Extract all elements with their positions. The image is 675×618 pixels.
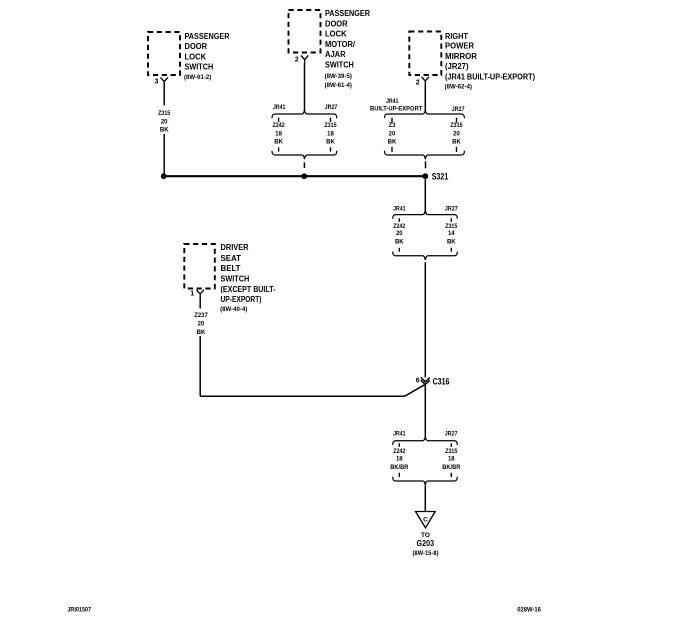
svg-text:PASSENGER: PASSENGER	[185, 32, 230, 41]
branch C labels JR41 / JR27	[393, 206, 458, 212]
label: passenger door lock switch	[184, 32, 230, 81]
svg-text:20: 20	[453, 131, 460, 137]
branch A labels JR41 / JR27	[273, 105, 338, 111]
svg-text:JR27: JR27	[325, 105, 338, 111]
wire from brace D to ground symbol	[424, 486, 426, 512]
svg-text:BELT: BELT	[221, 264, 241, 273]
svg-text:18: 18	[327, 131, 334, 137]
svg-text:(8W-15-8): (8W-15-8)	[413, 550, 439, 557]
brace D top	[393, 437, 458, 445]
brace C column dashes lower	[399, 248, 451, 252]
wire label Z315 20 BK	[158, 111, 171, 133]
svg-text:JR27: JR27	[445, 206, 458, 212]
brace B bottom	[385, 151, 465, 159]
svg-text:6: 6	[416, 377, 420, 384]
wire from motor/ajar switch to splice brace	[304, 63, 306, 110]
svg-text:BK: BK	[447, 240, 456, 246]
pin 6 (C316)	[416, 377, 420, 384]
svg-text:BUILT-UP-EXPORT: BUILT-UP-EXPORT	[370, 107, 423, 113]
svg-text:AJAR: AJAR	[325, 50, 346, 59]
footer sheet number right	[517, 608, 541, 614]
svg-text:Z242: Z242	[273, 123, 286, 129]
svg-text:SWITCH: SWITCH	[221, 275, 250, 284]
svg-text:18: 18	[396, 456, 403, 462]
svg-text:14: 14	[448, 231, 455, 237]
svg-text:(8W-61-2): (8W-61-2)	[184, 74, 211, 81]
brace B top (under right power mirror)	[385, 110, 465, 118]
svg-text:JR27: JR27	[452, 107, 465, 113]
svg-text:SWITCH: SWITCH	[325, 60, 354, 69]
brace D column dashes lower	[399, 473, 451, 477]
wire Z315 upper segment	[163, 85, 165, 105]
svg-text:(8W-61-4): (8W-61-4)	[325, 82, 352, 89]
brace D bottom	[393, 477, 458, 485]
svg-text:20: 20	[198, 322, 205, 328]
svg-text:LOCK: LOCK	[185, 52, 207, 61]
svg-text:BK: BK	[388, 140, 397, 146]
wire Z237 upper segment	[199, 297, 201, 309]
svg-text:18: 18	[448, 456, 455, 462]
brace C bottom	[393, 252, 458, 260]
svg-text:BK: BK	[452, 140, 461, 146]
svg-text:(JR27): (JR27)	[445, 62, 469, 71]
svg-text:JR41: JR41	[393, 206, 406, 212]
ground destination label TO G203	[413, 532, 439, 557]
brace A bottom	[272, 151, 337, 159]
svg-text:2: 2	[295, 57, 299, 64]
wire Z315 lower segment	[163, 134, 165, 176]
footer sheet number left	[67, 607, 91, 613]
svg-text:(8W-39-5): (8W-39-5)	[325, 73, 352, 80]
svg-text:(EXCEPT BUILT-: (EXCEPT BUILT-	[221, 285, 276, 294]
terminal Y (passenger door lock motor/ajar switch)	[301, 55, 308, 62]
connector C316 label	[433, 376, 450, 386]
terminal Y (right power mirror)	[422, 77, 429, 84]
svg-text:BK: BK	[274, 140, 283, 146]
splice S321 dot	[422, 173, 428, 179]
svg-text:JR41: JR41	[386, 99, 399, 105]
svg-text:UP-EXPORT): UP-EXPORT)	[221, 295, 262, 304]
branch B labels JR41 BUILT-UP-EXPORT / JR27	[370, 99, 465, 113]
wire Z237 vertical lower segment	[199, 336, 201, 396]
brace A column dashes upper	[279, 118, 331, 122]
svg-text:Z315: Z315	[324, 123, 337, 129]
svg-text:Z315: Z315	[445, 449, 458, 455]
svg-text:Z315: Z315	[450, 123, 463, 129]
connector box: passenger door lock switch	[148, 32, 180, 75]
branch A right column Z315 18 BK	[324, 123, 337, 146]
svg-text:SWITCH: SWITCH	[185, 63, 214, 72]
brace C top	[393, 210, 458, 218]
svg-text:G203: G203	[417, 539, 435, 548]
junction dot left	[161, 173, 167, 179]
connector box: right power mirror	[409, 32, 441, 76]
svg-text:BK/BR: BK/BR	[442, 465, 461, 471]
terminal Y (driver seat belt switch)	[197, 290, 204, 297]
svg-text:DOOR: DOOR	[325, 20, 348, 29]
wire from C316 down to brace D	[424, 385, 426, 437]
brace B column dashes lower	[392, 147, 457, 152]
svg-text:PASSENGER: PASSENGER	[325, 9, 370, 18]
wire dash below brace B	[425, 161, 427, 168]
label: right power mirror	[445, 32, 536, 91]
svg-text:DRIVER: DRIVER	[221, 243, 249, 252]
branch D right column Z315 18 BK/BR	[442, 449, 461, 471]
svg-text:3: 3	[154, 79, 158, 86]
pin 3 (passenger door lock switch)	[154, 79, 158, 86]
pin 1 (driver seat belt switch)	[190, 291, 194, 298]
svg-text:RIGHT: RIGHT	[445, 32, 468, 41]
svg-text:LOCK: LOCK	[325, 30, 347, 39]
wire Z237 horizontal segment	[200, 395, 404, 397]
wire from S321 down to brace C	[424, 179, 426, 211]
svg-text:DOOR: DOOR	[185, 42, 208, 51]
pin 2 (right power mirror)	[416, 79, 420, 86]
svg-text:20: 20	[396, 231, 403, 237]
wire Z237 diagonal segment to C316	[405, 384, 426, 396]
wire from right power mirror to splice brace	[424, 84, 426, 110]
svg-text:C316: C316	[433, 376, 450, 386]
svg-text:Z315: Z315	[445, 224, 458, 230]
brace B column dashes upper	[392, 118, 457, 123]
svg-text:BK: BK	[197, 330, 206, 336]
svg-text:Z237: Z237	[194, 313, 208, 319]
svg-text:20: 20	[389, 131, 396, 137]
wire dash below brace A	[303, 162, 305, 168]
branch C left column Z242 20 BK	[393, 224, 406, 246]
long wire from brace C to connector C316	[424, 262, 426, 377]
svg-text:(8W-40-4): (8W-40-4)	[220, 306, 247, 313]
svg-text:BK: BK	[160, 128, 169, 134]
svg-text:20: 20	[161, 119, 168, 125]
svg-text:MIRROR: MIRROR	[445, 52, 477, 61]
svg-text:JR41: JR41	[393, 431, 406, 437]
branch B right column Z315 20 BK	[450, 123, 463, 146]
branch C right column Z315 14 BK	[445, 224, 458, 246]
svg-text:Z3: Z3	[388, 123, 396, 129]
pin 2 (passenger door lock motor/ajar switch)	[295, 57, 299, 64]
junction dot middle	[301, 173, 307, 179]
svg-text:JRI01507: JRI01507	[67, 607, 91, 613]
connector box: driver seat belt switch	[184, 244, 215, 289]
branch B left column Z3 20 BK	[388, 123, 397, 146]
svg-text:(8W-62-4): (8W-62-4)	[445, 84, 472, 91]
svg-text:Z315: Z315	[158, 111, 171, 117]
svg-text:S321: S321	[432, 171, 449, 181]
svg-text:028W-16: 028W-16	[517, 608, 541, 614]
brace C column dashes upper	[399, 218, 451, 222]
svg-text:(JR41 BUILT-UP-EXPORT): (JR41 BUILT-UP-EXPORT)	[445, 72, 535, 81]
svg-text:Z242: Z242	[393, 449, 406, 455]
connector box: passenger door lock motor/ajar switch	[289, 10, 321, 53]
svg-text:JR41: JR41	[273, 105, 286, 111]
svg-text:C: C	[423, 516, 428, 523]
svg-text:18: 18	[275, 131, 282, 137]
wire label Z237 20 BK	[194, 313, 208, 336]
svg-text:SEAT: SEAT	[221, 254, 242, 263]
terminal Y (passenger door lock switch)	[161, 77, 168, 85]
connector C316 chevrons	[421, 378, 430, 385]
bus wire (splice bus)	[164, 175, 426, 177]
splice S321 label	[432, 171, 449, 181]
svg-text:POWER: POWER	[445, 42, 474, 51]
ground symbol triangle C	[416, 512, 436, 528]
svg-text:MOTOR/: MOTOR/	[325, 40, 356, 49]
svg-text:JR27: JR27	[445, 431, 458, 437]
label: driver seat belt switch	[220, 243, 276, 313]
branch D left column Z242 18 BK/BR	[390, 449, 409, 471]
svg-text:1: 1	[190, 291, 194, 298]
label: passenger door lock motor/ajar switch	[325, 9, 371, 89]
svg-text:TO: TO	[421, 532, 430, 539]
svg-text:Z242: Z242	[393, 224, 406, 230]
svg-text:2: 2	[416, 79, 420, 86]
branch A left column Z242 18 BK	[273, 123, 286, 146]
svg-text:BK: BK	[326, 140, 335, 146]
brace A column dashes lower	[279, 147, 331, 151]
brace D column dashes upper	[399, 443, 451, 447]
svg-text:BK: BK	[395, 240, 404, 246]
svg-text:BK/BR: BK/BR	[390, 465, 409, 471]
brace A top (under motor/ajar switch)	[272, 110, 337, 118]
branch D labels JR41 / JR27	[393, 431, 458, 437]
